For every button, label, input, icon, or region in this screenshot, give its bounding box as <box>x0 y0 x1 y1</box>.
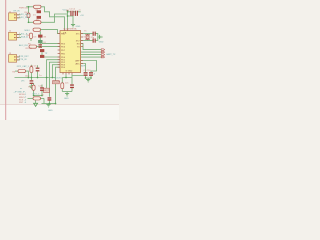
junction at node A bottom <box>28 21 30 23</box>
wire bottom rail gnd drop <box>48 103 50 106</box>
wire node A vertical x28.5 lower <box>28 18 30 23</box>
diode D3 row2 <box>38 35 42 38</box>
wire diode D3 D4 link x42 <box>41 52 43 57</box>
svg-text:C1 C2: C1 C2 <box>69 9 76 11</box>
hierarchical label RESET box <box>44 88 50 92</box>
resistor RV1 vertical on node A <box>27 13 30 18</box>
junction VCC/R2 rail <box>67 15 69 17</box>
resistor R1 <box>34 5 42 8</box>
wire VCC to caps top rail <box>68 11 71 13</box>
resistor R5 row2 <box>29 45 37 48</box>
wire net ANT: J1 pin1 to R column <box>17 14 21 16</box>
junction avcc caps bottom left <box>85 77 87 79</box>
wire riser1 rail to RESET label box <box>46 78 48 89</box>
resistor R10 vertical reset pullup <box>32 85 35 90</box>
junction rail x46.6 <box>46 77 48 79</box>
wire nested riser 4 long vertical to bottom rail <box>56 67 60 103</box>
wire bottom rail y103.5 <box>42 103 56 105</box>
wire caps C9 C10 bottom rail <box>86 76 92 78</box>
capacitor C11 reset plates <box>40 87 44 91</box>
wire C12 riser join <box>43 98 45 103</box>
wire GND arrow stub <box>35 100 37 103</box>
junction rail x52.4 <box>52 77 54 79</box>
wire D4 row to IC pin y57 <box>42 56 60 58</box>
junction VCC/cap rail <box>67 11 69 13</box>
ground below IC rail <box>65 94 69 97</box>
U1 top pin stubs <box>65 29 68 31</box>
wire C6 bottom to GND symbol <box>30 84 32 86</box>
wire R9 right <box>41 97 45 99</box>
wire C9C10 gnd drop <box>87 78 89 79</box>
crystal Y1 <box>85 35 90 40</box>
capacitor C2 plates <box>75 11 78 16</box>
wire R1 left <box>26 6 33 8</box>
junction rail x31.4 <box>31 77 33 79</box>
svg-text:RST: RST <box>44 89 50 93</box>
op-amp U1 body <box>60 31 81 73</box>
svg-text:UART_TX: UART_TX <box>106 53 116 56</box>
wire R6 right bend to GND rail <box>26 71 29 77</box>
power flag tick on VCC <box>66 9 68 11</box>
junction avcc caps bottom right <box>90 77 92 79</box>
capacitor C8 below IC plates <box>70 84 74 88</box>
ground below C1 C2 <box>71 24 75 27</box>
capacitor C10 AVCC plates <box>89 72 93 76</box>
ground below C6 <box>29 86 33 89</box>
wire lower GND rail y91.5 <box>62 91 72 93</box>
wire R10 top stub <box>33 83 35 85</box>
svg-text:MISO: MISO <box>25 30 31 32</box>
ground below C9 C10 <box>86 79 90 82</box>
wire J2 pin2 label <box>17 37 21 39</box>
sheet background <box>0 0 119 120</box>
capacitor C12 plates bottom <box>48 97 52 100</box>
wire crystal vertical stubs <box>87 34 89 35</box>
wire IC pin to AVCC caps <box>72 74 84 75</box>
svg-text:GND: GND <box>99 42 104 44</box>
wire J3 pin2 <box>17 59 20 61</box>
wire crystal top rail right <box>96 34 98 41</box>
resistor R6 mid-left <box>18 70 26 73</box>
svg-text:PWR 100: PWR 100 <box>19 8 29 10</box>
junction reset row right <box>41 95 43 97</box>
resistor R3 row2 <box>33 28 41 31</box>
wire LED anode row to IC pin y43.6 <box>42 42 60 44</box>
junction IC gnd rail <box>65 77 67 79</box>
connector J2 body <box>9 32 17 40</box>
svg-text:CTS_IN: CTS_IN <box>19 59 27 61</box>
diode D1 <box>37 10 41 13</box>
wire R3 top row to IC pin PB via x57.5 <box>41 30 60 34</box>
U1 pin numbers row inside bottom <box>66 71 73 73</box>
wire nested riser 1 to IC pin y59.7 <box>47 60 60 78</box>
resistor R4 vertical row2 <box>30 33 33 38</box>
wire crystal top rail <box>81 33 93 35</box>
wire C8 bottom stub <box>71 88 73 92</box>
wire IC bottom pin GND drop <box>65 74 67 77</box>
global label arrows right side <box>101 49 104 58</box>
wire caps to +5V <box>77 11 81 13</box>
wire R1 right staircase to IC top pin1 <box>41 7 65 29</box>
sheet frame bottom line <box>0 104 119 106</box>
wire UART label row 2 <box>81 51 101 53</box>
wire R8 top stub <box>61 78 63 83</box>
U1 bottom pin stubs <box>63 73 72 75</box>
svg-text:VCC: VCC <box>63 10 68 12</box>
svg-text:DTR_RST: DTR_RST <box>19 56 29 58</box>
capacitor C5 plates mid <box>36 68 40 72</box>
svg-text:RST: RST <box>19 102 24 104</box>
wire crystal bottom rail <box>81 40 93 42</box>
wire R6 left stub <box>15 70 18 72</box>
svg-text:G GND: G GND <box>66 71 73 73</box>
svg-text:AVC: AVC <box>75 63 80 66</box>
wire R9 left <box>28 97 34 99</box>
hierarchical label BOOT box <box>53 81 61 85</box>
svg-text:DTR_CAP_1: DTR_CAP_1 <box>17 65 30 68</box>
U1 pin name texts inside left <box>61 34 66 70</box>
wire IC right pin y60.5 to x96.5 <box>81 61 97 73</box>
wire UART label row 3 <box>81 54 101 56</box>
wire UART label row 4 <box>81 56 101 58</box>
wire C5 bottom stub <box>37 72 39 78</box>
wire diode column vertical x40.3 <box>39 31 41 44</box>
wire IC right pin y63.5 down to cap C9 <box>81 64 86 73</box>
junction LED row <box>39 46 41 48</box>
wire lower GND rail drop <box>66 92 68 94</box>
capacitor C3 plates row2 <box>38 44 42 47</box>
capacitor C1 plates <box>70 11 73 16</box>
junction reset row left <box>33 95 35 97</box>
ground sideways for crystal <box>100 35 103 39</box>
wire nested riser 3 to IC pin y64.7 <box>52 65 60 78</box>
svg-text:+5V: +5V <box>80 15 84 17</box>
U1 right pin stubs <box>81 34 83 64</box>
junction at node A top <box>28 6 30 8</box>
wire C11 bottom stub <box>41 91 43 96</box>
connector J2 pin stubs <box>17 35 19 38</box>
svg-text:BOOT0: BOOT0 <box>55 77 63 79</box>
svg-text:RF_IN: RF_IN <box>14 10 21 12</box>
connector J1 pin stubs <box>17 15 19 18</box>
svg-text:GND: GND <box>76 26 81 28</box>
wire J1 pin2 <box>17 17 21 19</box>
capacitor C5x crystal bottom plates <box>93 39 96 43</box>
wire C6 below-rail stub <box>30 78 32 81</box>
svg-text:R7 C5: R7 C5 <box>31 65 38 67</box>
ground arrow bottom mid <box>34 103 38 106</box>
wire C12 bottom stub <box>48 101 50 104</box>
svg-text:16MHz: 16MHz <box>83 37 90 39</box>
wire mid GND rail y77.5 <box>15 77 56 79</box>
wire between caps C1 C2 <box>73 11 75 13</box>
wire node A vertical x28.5 upper <box>28 7 30 13</box>
wire J2 pin1 label <box>17 34 21 36</box>
resistor R2 <box>34 21 42 24</box>
wire R2 right staircase to VCC node <box>29 21 34 23</box>
svg-text:R12 1k: R12 1k <box>26 48 34 50</box>
junction rail x28.4 <box>28 77 30 79</box>
svg-text:ARF: ARF <box>75 60 80 63</box>
wire VCC vertical into IC top pin2 <box>67 10 69 29</box>
wire crystal gnd stub <box>98 36 100 38</box>
capacitor C4 crystal top plates <box>93 32 96 36</box>
connector J1 body <box>9 13 17 21</box>
svg-text:GND: GND <box>64 98 69 100</box>
svg-text:IC1 ATMEGA: IC1 ATMEGA <box>64 28 78 31</box>
wire IC bottom rail <box>62 77 72 79</box>
diode D2 <box>37 16 41 19</box>
svg-text:GND: GND <box>48 110 53 112</box>
svg-text:RX_DET: RX_DET <box>21 17 30 19</box>
svg-text:RST_C: RST_C <box>33 93 40 95</box>
wire R2 to x54.5 riser <box>41 14 68 22</box>
LED D4 green <box>38 40 42 43</box>
U1 pin name texts inside right <box>75 34 80 66</box>
diode D5 row3 <box>40 49 44 52</box>
U1 left pin stubs <box>58 34 60 68</box>
wire R10 bottom stub <box>33 90 35 95</box>
junction bottom rail riser <box>55 103 57 105</box>
wire cap bottom rail to GND drop <box>68 16 74 24</box>
area below sheet frame bottom <box>0 105 119 120</box>
resistor R9 horizontal reset <box>33 97 41 100</box>
capacitor C6 below rail plates <box>30 80 34 84</box>
svg-text:nc: nc <box>20 88 22 90</box>
connector J3 pin stubs <box>17 57 19 60</box>
resistor R7 vertical mid <box>30 67 33 73</box>
svg-text:_JP GND JP_: _JP GND JP_ <box>12 91 27 93</box>
wire J3 pin1 <box>17 56 20 58</box>
junction bottom rail cap <box>49 103 51 105</box>
wire R7 top stub <box>30 65 32 67</box>
wire C8 top stub <box>71 76 73 85</box>
svg-text:C9 C10: C9 C10 <box>83 70 91 72</box>
diode D6 row3 <box>40 55 44 58</box>
svg-text:RX_GND: RX_GND <box>21 14 30 16</box>
wire reset row y95.5 <box>34 95 42 97</box>
sheet frame left line <box>5 0 7 120</box>
wire nested riser 2 to IC pin y62.2 <box>49 62 60 97</box>
resistor R8 vertical below IC <box>61 83 64 89</box>
wire R4 bottom stub <box>30 39 32 42</box>
wire C11 top stub <box>41 85 43 88</box>
wire C5 top stub <box>37 65 39 67</box>
wire R7 bottom stub <box>30 73 32 78</box>
ground below bottom rail <box>46 104 50 107</box>
connector J3 body <box>9 55 17 63</box>
wire UART label row 1 <box>81 44 101 50</box>
junction rail x37.5 <box>37 77 39 79</box>
wire R8 bottom stub <box>61 89 63 92</box>
svg-text:ARF: ARF <box>81 65 86 68</box>
wire R5 right to IC pin y46.6 <box>37 46 60 48</box>
capacitor C9 AVCC plates <box>84 72 88 76</box>
